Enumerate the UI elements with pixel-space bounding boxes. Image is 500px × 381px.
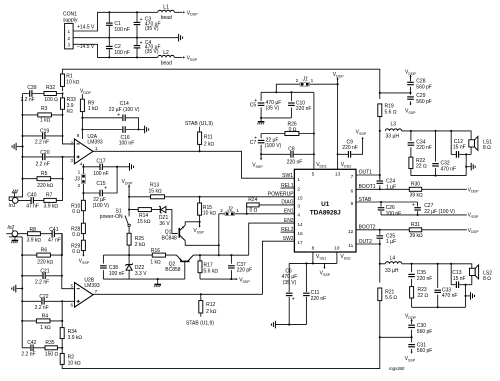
svg-text:R24: R24 bbox=[248, 197, 257, 203]
svg-text:J1: J1 bbox=[302, 77, 309, 83]
wire left rail lower bbox=[21, 237, 23, 348]
svg-text:R11: R11 bbox=[204, 135, 213, 141]
svg-text:R7: R7 bbox=[46, 192, 53, 198]
svg-text:15 nF: 15 nF bbox=[453, 276, 466, 282]
svg-text:4: 4 bbox=[80, 161, 83, 166]
terminal VSSP U1 bbox=[320, 263, 331, 276]
resistor R16 bbox=[150, 248, 165, 266]
svg-text:U1: U1 bbox=[321, 201, 330, 208]
wire C15 row bbox=[82, 167, 117, 194]
terminal VSSP R17 bbox=[236, 278, 251, 284]
svg-text:kΩ: kΩ bbox=[67, 108, 74, 114]
svg-text:C41: C41 bbox=[49, 227, 58, 233]
svg-text:15: 15 bbox=[297, 196, 303, 201]
wire In2 row bbox=[6, 234, 62, 255]
svg-text:220 nF: 220 nF bbox=[342, 145, 358, 151]
svg-text:power-ON: power-ON bbox=[100, 214, 123, 220]
label EN2 bbox=[284, 218, 294, 224]
svg-text:C21: C21 bbox=[40, 268, 49, 274]
svg-text:3.9 kΩ: 3.9 kΩ bbox=[44, 204, 59, 210]
wire J1 row bbox=[276, 84, 337, 92]
svg-text:C15: C15 bbox=[96, 181, 105, 187]
ground left rail upper bbox=[12, 143, 23, 151]
ground C17 bbox=[130, 163, 134, 171]
svg-text:5.6 Ω: 5.6 Ω bbox=[385, 295, 397, 301]
terminal VSSP C7 bbox=[252, 158, 263, 168]
svg-text:R35: R35 bbox=[45, 340, 54, 346]
wire R26 row bbox=[261, 133, 314, 135]
svg-text:+: + bbox=[117, 113, 120, 119]
capacitor C12 bbox=[451, 139, 467, 158]
ground In2 chassis bbox=[11, 237, 18, 243]
svg-text:100 Ω: 100 Ω bbox=[44, 97, 58, 103]
svg-text:TDA8928J: TDA8928J bbox=[310, 210, 341, 217]
switch S1 power-ON bbox=[100, 209, 131, 234]
wire LC filter 2 top rail bbox=[402, 263, 472, 269]
capacitor C4 bbox=[134, 40, 161, 55]
svg-text:C22: C22 bbox=[39, 294, 48, 300]
svg-text:2: 2 bbox=[296, 78, 299, 83]
label VDD1 bbox=[316, 162, 327, 168]
svg-text:+14.5 V: +14.5 V bbox=[77, 25, 95, 31]
svg-text:1: 1 bbox=[311, 78, 314, 83]
resistor R33 bbox=[61, 94, 76, 115]
svg-text:BOOT2: BOOT2 bbox=[359, 225, 376, 231]
svg-text:R32: R32 bbox=[46, 85, 55, 91]
svg-text:BOOT1: BOOT1 bbox=[359, 184, 376, 190]
svg-text:8 Ω: 8 Ω bbox=[483, 276, 491, 282]
capacitor C39 bbox=[21, 85, 37, 103]
capacitor C41 bbox=[48, 227, 61, 244]
terminal VDDP C30 bbox=[405, 314, 417, 325]
svg-text:2: 2 bbox=[70, 141, 73, 146]
svg-text:2: 2 bbox=[220, 208, 223, 213]
wire C9 row bbox=[338, 138, 363, 154]
wire C17 row bbox=[82, 166, 129, 168]
svg-text:C5: C5 bbox=[250, 103, 257, 109]
capacitor C17 bbox=[93, 158, 109, 177]
resistor R24 0 ohm bbox=[246, 197, 295, 215]
op-amp U2B LM393 bbox=[70, 277, 99, 307]
capacitor C29 bbox=[407, 93, 432, 105]
inductor L3 bbox=[385, 121, 402, 139]
wire VDDP to VDD2 column bbox=[337, 78, 339, 170]
wire C39 R32 row bbox=[23, 92, 64, 94]
svg-text:(35 V): (35 V) bbox=[283, 280, 297, 286]
svg-text:In2: In2 bbox=[7, 225, 14, 231]
svg-text:8: 8 bbox=[77, 133, 80, 138]
wire C26 C27 VSSP row bbox=[381, 214, 467, 216]
svg-text:POWERUP: POWERUP bbox=[268, 192, 295, 198]
capacitor C28 bbox=[407, 79, 432, 93]
svg-text:C17: C17 bbox=[96, 158, 105, 164]
wire OUT2 row bbox=[356, 239, 381, 245]
svg-text:(35 V): (35 V) bbox=[266, 106, 280, 112]
svg-text:+: + bbox=[292, 296, 295, 302]
svg-text:3.9 kΩ: 3.9 kΩ bbox=[27, 238, 42, 244]
wire supply positive rail bbox=[73, 12, 158, 31]
svg-text:R5: R5 bbox=[41, 171, 48, 177]
transistor Q2 BC858 bbox=[165, 255, 193, 273]
wire LS2 return column bbox=[464, 285, 466, 308]
svg-text:15 kΩ: 15 kΩ bbox=[149, 188, 162, 194]
op-amp U2A LM393 bbox=[70, 133, 103, 166]
capacitor C8 bbox=[287, 147, 303, 166]
wire R17 C37 VSSP row bbox=[200, 278, 236, 280]
svg-text:10: 10 bbox=[334, 246, 340, 251]
resistor R12 bbox=[186, 294, 217, 326]
resistor R15 bbox=[198, 197, 217, 222]
svg-text:J2: J2 bbox=[226, 207, 233, 213]
wire C19 row bbox=[21, 135, 63, 137]
capacitor C34 bbox=[408, 131, 432, 157]
svg-text:2.2 nF: 2.2 nF bbox=[35, 140, 49, 146]
speaker LS1 bbox=[466, 136, 492, 154]
svg-text:STAB: STAB bbox=[359, 197, 372, 203]
capacitor C2 bbox=[106, 44, 130, 56]
svg-text:SW1: SW1 bbox=[282, 173, 293, 179]
wire DZ2 ground row bbox=[103, 278, 184, 280]
wire OUT1 row bbox=[356, 170, 381, 176]
capacitor C14 bbox=[109, 101, 140, 121]
wire In2 shield bar bbox=[9, 236, 22, 238]
wire input In1 row bbox=[9, 179, 62, 201]
svg-text:R12: R12 bbox=[206, 302, 215, 308]
capacitor C13 bbox=[451, 270, 466, 288]
label +14.5 V bbox=[77, 25, 95, 31]
svg-text:6: 6 bbox=[70, 302, 73, 307]
capacitor C11 bbox=[303, 263, 326, 324]
resistor R5 bbox=[37, 171, 54, 189]
wire OUT2 node column bbox=[379, 244, 381, 283]
terminal VDDP center bbox=[333, 72, 345, 79]
svg-text:220 nF: 220 nF bbox=[296, 106, 312, 112]
svg-text:2.2 nF: 2.2 nF bbox=[35, 305, 49, 311]
svg-text:220 nF: 220 nF bbox=[311, 296, 327, 302]
wire R4 row bbox=[22, 320, 63, 322]
resistor R17 bbox=[198, 255, 218, 279]
svg-text:1 kΩ: 1 kΩ bbox=[40, 325, 51, 331]
svg-text:560 pF: 560 pF bbox=[417, 348, 433, 354]
wire C6 C11 ground row bbox=[276, 324, 307, 326]
svg-text:–14.5 V: –14.5 V bbox=[77, 44, 95, 50]
wire EN2 branch bbox=[249, 223, 295, 255]
wire R13 POWERUP row bbox=[129, 196, 294, 198]
svg-text:16: 16 bbox=[297, 231, 303, 236]
svg-text:C8: C8 bbox=[288, 147, 295, 153]
resistor R2 bbox=[60, 353, 81, 366]
svg-text:STAB (U1,9): STAB (U1,9) bbox=[185, 121, 213, 127]
capacitor C26 bbox=[378, 202, 401, 217]
svg-text:(100 V): (100 V) bbox=[265, 143, 282, 149]
connector In2 bbox=[7, 225, 17, 237]
resistor R29 0 ohm bbox=[71, 240, 85, 255]
label -14.5 V bbox=[77, 44, 95, 50]
label VSS2 bbox=[340, 254, 350, 260]
svg-text:100 nF: 100 nF bbox=[93, 171, 109, 177]
svg-text:2: 2 bbox=[67, 36, 70, 41]
ground DZ2 row bbox=[154, 279, 161, 287]
wire C12 branch bbox=[450, 131, 452, 155]
wire U2A pin8 supply stub bbox=[81, 130, 83, 140]
capacitor C31 bbox=[408, 337, 432, 354]
svg-text:10 kΩ: 10 kΩ bbox=[68, 361, 81, 367]
svg-text:2: 2 bbox=[78, 183, 81, 188]
svg-text:1 µF: 1 µF bbox=[386, 239, 396, 245]
svg-text:bead: bead bbox=[161, 60, 172, 66]
zener diode DZ1 bbox=[159, 206, 170, 227]
pin labels U1 top bottom bbox=[312, 171, 341, 250]
svg-text:2 kΩ: 2 kΩ bbox=[204, 142, 215, 148]
wire C1 C2 column bbox=[108, 11, 110, 58]
svg-text:220 nF: 220 nF bbox=[417, 276, 433, 282]
capacitor C33 bbox=[434, 264, 457, 308]
capacitor C24 bbox=[377, 175, 397, 190]
svg-text:OUT1: OUT1 bbox=[359, 170, 373, 176]
jumper J3 bbox=[74, 167, 86, 200]
svg-text:REL1: REL1 bbox=[281, 183, 294, 189]
wire REL2 stub bbox=[281, 227, 295, 233]
wire R6 row bbox=[22, 254, 63, 256]
resistor R22 bbox=[409, 157, 427, 176]
svg-text:39 kΩ: 39 kΩ bbox=[410, 233, 423, 239]
resistor R34 bbox=[60, 328, 82, 341]
svg-text:2 kΩ: 2 kΩ bbox=[135, 242, 146, 248]
svg-text:15 nF: 15 nF bbox=[453, 145, 466, 151]
terminal VDDP R30 bbox=[468, 187, 480, 193]
connector In1 bbox=[9, 198, 18, 210]
svg-text:22 µF (100 V): 22 µF (100 V) bbox=[109, 107, 140, 113]
terminal VSSP C9 bbox=[356, 129, 367, 138]
capacitor C7 bbox=[250, 134, 282, 159]
wire BOOT2 R31 row bbox=[356, 225, 467, 231]
wire L2 to VSSP bbox=[174, 56, 182, 58]
wire R5 to C20 row vertical bbox=[62, 157, 64, 179]
capacitor C5 bbox=[250, 92, 281, 121]
resistor R13 bbox=[149, 183, 165, 199]
svg-text:1 kΩ: 1 kΩ bbox=[88, 106, 99, 112]
resistor R32 bbox=[44, 85, 58, 103]
connector CON1 supply bbox=[63, 11, 78, 49]
svg-text:C42: C42 bbox=[27, 340, 36, 346]
wire Q1 emitter to VSSP bbox=[185, 221, 200, 225]
svg-text:R8: R8 bbox=[30, 227, 37, 233]
terminal VSSP top bbox=[183, 55, 198, 61]
wire supply mid rail bbox=[73, 37, 178, 39]
svg-text:0 Ω: 0 Ω bbox=[250, 208, 258, 214]
speaker LS2 bbox=[466, 265, 493, 285]
capacitor C20 bbox=[36, 150, 50, 168]
svg-text:0 Ω: 0 Ω bbox=[72, 249, 80, 255]
svg-text:C20: C20 bbox=[40, 150, 49, 156]
wire R28 to R29 bbox=[82, 234, 84, 241]
svg-text:SW2: SW2 bbox=[283, 236, 294, 242]
capacitor C38 bbox=[100, 255, 124, 279]
svg-text:OUT2: OUT2 bbox=[359, 239, 373, 245]
svg-text:10 kΩ: 10 kΩ bbox=[203, 211, 216, 217]
wire C16 row bbox=[81, 128, 144, 130]
resistor R10 0 ohm bbox=[71, 200, 85, 215]
resistor R21 bbox=[378, 288, 398, 338]
svg-text:DIAG: DIAG bbox=[281, 200, 293, 206]
svg-text:12: 12 bbox=[348, 229, 354, 234]
resistor R11 bbox=[185, 121, 215, 151]
svg-text:L2: L2 bbox=[163, 50, 169, 56]
terminal VDDP C28 bbox=[405, 69, 417, 81]
resistor R31 bbox=[409, 222, 423, 239]
svg-text:2.2 nF: 2.2 nF bbox=[21, 351, 35, 357]
svg-text:33 µH: 33 µH bbox=[386, 133, 400, 139]
terminal VDDP R31 bbox=[468, 228, 480, 234]
svg-text:220 nF: 220 nF bbox=[287, 159, 303, 165]
svg-text:BC848: BC848 bbox=[162, 235, 178, 241]
svg-text:(100 V): (100 V) bbox=[93, 203, 110, 209]
pin labels U1 right bbox=[348, 174, 354, 248]
transistor Q1 BC848 bbox=[162, 225, 186, 241]
wire R5 row bbox=[21, 178, 63, 180]
resistor R6 bbox=[37, 247, 54, 265]
svg-text:5: 5 bbox=[70, 283, 73, 288]
svg-text:8: 8 bbox=[312, 246, 315, 251]
wire C21 row bbox=[22, 275, 63, 277]
capacitor C21 bbox=[35, 268, 50, 285]
resistor R28 0 ohm bbox=[71, 223, 85, 238]
svg-text:39 kΩ: 39 kΩ bbox=[410, 193, 423, 199]
svg-text:supply: supply bbox=[63, 18, 78, 24]
capacitor C3 bbox=[134, 17, 161, 32]
wire feedback rail OUT1 bbox=[63, 69, 380, 99]
svg-text:L4: L4 bbox=[390, 255, 396, 261]
svg-text:4: 4 bbox=[297, 213, 300, 218]
svg-text:C39: C39 bbox=[27, 85, 36, 91]
svg-text:1: 1 bbox=[95, 146, 98, 151]
resistor R19 bbox=[378, 92, 397, 131]
capacitor C37 bbox=[228, 255, 252, 279]
svg-text:220 kΩ: 220 kΩ bbox=[37, 183, 53, 189]
wire S1 column bbox=[128, 196, 130, 217]
zener diode DZ2 bbox=[126, 255, 147, 279]
capacitor C22 bbox=[35, 294, 49, 311]
svg-text:22 Ω: 22 Ω bbox=[418, 293, 429, 299]
wire VSS pins rail bbox=[289, 252, 337, 264]
wire C42 R35 row bbox=[22, 347, 63, 349]
svg-text:470 nF: 470 nF bbox=[441, 166, 457, 172]
svg-text:100 nF: 100 nF bbox=[114, 27, 130, 33]
svg-text:7: 7 bbox=[351, 174, 354, 179]
svg-text:47 nF: 47 nF bbox=[48, 238, 61, 244]
ground C5 bbox=[257, 122, 264, 125]
svg-text:100 nF: 100 nF bbox=[114, 50, 130, 56]
svg-text:(35 V): (35 V) bbox=[145, 26, 159, 32]
svg-text:R6: R6 bbox=[41, 247, 48, 253]
svg-text:560 pF: 560 pF bbox=[416, 99, 432, 105]
label SW1 bbox=[282, 173, 293, 179]
capacitor C35 bbox=[408, 264, 432, 287]
label DIAG bbox=[281, 200, 293, 206]
svg-text:C40: C40 bbox=[27, 192, 36, 198]
wire L1 to VDDP bbox=[174, 11, 182, 13]
svg-text:100 nF: 100 nF bbox=[386, 211, 402, 217]
svg-text:220 nF: 220 nF bbox=[416, 145, 432, 151]
svg-text:3: 3 bbox=[67, 43, 70, 48]
svg-text:J3: J3 bbox=[74, 177, 81, 183]
svg-text:R30: R30 bbox=[411, 182, 420, 188]
svg-text:+: + bbox=[140, 40, 143, 46]
svg-text:220 pF: 220 pF bbox=[237, 268, 253, 274]
wire C5 C10 bottom bbox=[261, 117, 291, 119]
svg-text:1: 1 bbox=[236, 208, 239, 213]
svg-text:+: + bbox=[140, 17, 143, 23]
svg-text:33 µH: 33 µH bbox=[385, 268, 399, 274]
ground left rail lower bbox=[12, 285, 23, 293]
svg-text:150 Ω: 150 Ω bbox=[45, 351, 59, 357]
ground LS2 bbox=[466, 292, 475, 300]
svg-text:1 kΩ: 1 kΩ bbox=[40, 117, 51, 123]
capacitor C10 bbox=[288, 92, 311, 118]
svg-text:6: 6 bbox=[351, 188, 354, 193]
wire R34 R2 column bbox=[61, 301, 63, 364]
capacitor C32 bbox=[432, 131, 456, 176]
svg-text:EN2: EN2 bbox=[284, 218, 294, 224]
svg-text:3.3 V: 3.3 V bbox=[135, 271, 147, 277]
svg-text:L1: L1 bbox=[163, 5, 169, 11]
wire R21 C30 node row bbox=[380, 336, 413, 338]
svg-text:100 nF: 100 nF bbox=[119, 141, 135, 147]
wire C22 row to U2B non-inverting input bbox=[22, 300, 74, 302]
svg-text:R3: R3 bbox=[41, 106, 48, 112]
svg-text:470 nF: 470 nF bbox=[442, 293, 458, 299]
svg-text:R4: R4 bbox=[42, 313, 49, 319]
resistor R26 bbox=[285, 121, 299, 135]
wire bottom feedback rail OUT2 bbox=[62, 337, 380, 368]
capacitor C42 bbox=[21, 340, 36, 358]
svg-text:7: 7 bbox=[95, 289, 98, 294]
label VDD2 bbox=[341, 162, 352, 168]
svg-text:C19: C19 bbox=[40, 128, 49, 134]
capacitor C1 bbox=[106, 21, 130, 33]
svg-text:2.2 nF: 2.2 nF bbox=[36, 162, 50, 168]
resistor R30 bbox=[409, 182, 423, 199]
svg-text:mgx360: mgx360 bbox=[389, 366, 405, 371]
svg-text:L3: L3 bbox=[391, 121, 397, 127]
terminal VDDP top bbox=[183, 10, 198, 16]
svg-text:1: 1 bbox=[297, 177, 300, 182]
jumper J2 bbox=[220, 207, 294, 216]
resistor R1 bbox=[61, 74, 80, 87]
pin labels U1 left bbox=[297, 177, 303, 245]
svg-text:5.6 kΩ: 5.6 kΩ bbox=[204, 268, 219, 274]
wire In1 shield loop bbox=[9, 94, 22, 201]
svg-text:1: 1 bbox=[78, 169, 81, 174]
svg-text:3.9 kΩ: 3.9 kΩ bbox=[68, 335, 83, 341]
resistor R3 bbox=[38, 106, 52, 124]
resistor R25 bbox=[127, 233, 145, 255]
ground C6 C11 bbox=[271, 321, 275, 329]
wire C20 row to U2A non-inverting input bbox=[21, 156, 74, 158]
terminal VSSP R29 bbox=[79, 251, 90, 266]
svg-text:100 nF: 100 nF bbox=[109, 271, 125, 277]
label mgx360 bbox=[389, 366, 405, 371]
svg-text:3: 3 bbox=[297, 204, 300, 209]
wire Q2 collector row EN2 bbox=[193, 254, 248, 256]
resistor R35 bbox=[45, 340, 59, 358]
wire C8 row bbox=[261, 153, 315, 155]
capacitor C15 bbox=[93, 181, 110, 209]
svg-text:2 kΩ: 2 kΩ bbox=[206, 309, 217, 315]
svg-text:8 Ω: 8 Ω bbox=[483, 145, 491, 151]
svg-text:3: 3 bbox=[70, 158, 73, 163]
terminal VSSP R15 bbox=[193, 222, 204, 235]
